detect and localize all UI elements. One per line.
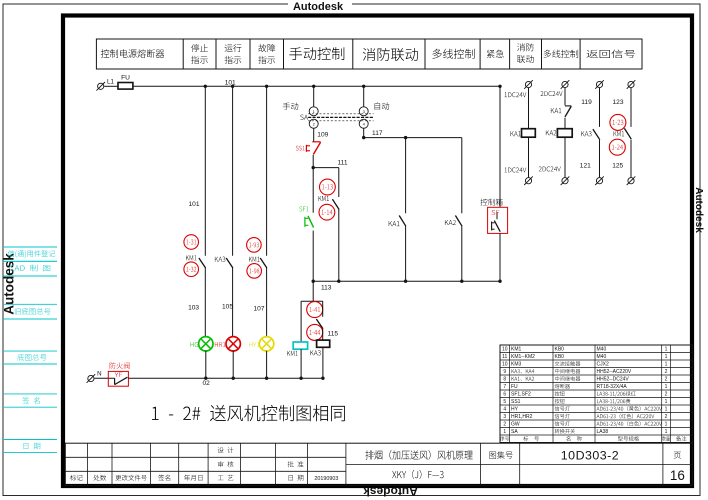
wire 1DC24V to coil KA1	[528, 88, 530, 129]
label manual	[283, 102, 298, 109]
label auto	[375, 102, 389, 109]
wire control-box branch lower to wire 113	[499, 233, 501, 281]
svg-text:3: 3	[503, 414, 506, 420]
junction on wire 101 at stop-indicator branch	[204, 85, 207, 88]
title: page label	[674, 452, 681, 459]
svg-text:5: 5	[503, 399, 506, 405]
contact KA1 (NC) in KA2 branch	[551, 106, 571, 117]
svg-text:1: 1	[665, 422, 668, 428]
wire 117	[362, 130, 462, 139]
title: atlas number label	[489, 451, 512, 458]
wire 02	[128, 378, 323, 387]
wire contact KA1 to coil KA2	[564, 118, 566, 129]
terminal N	[87, 371, 102, 383]
junction 02 at HY1 column	[265, 377, 268, 380]
svg-text:LA38: LA38	[597, 429, 609, 435]
wire KA2 branch upper	[461, 138, 463, 214]
wire 101 drop to SA manual contact	[313, 86, 315, 107]
terminal 121	[580, 162, 604, 185]
junction 117/KA1 branch	[404, 136, 407, 139]
wire contact to lamp HG	[188, 268, 205, 337]
label control box	[480, 199, 502, 206]
sidebar label signature	[23, 397, 40, 404]
svg-text:20190903: 20190903	[314, 476, 338, 482]
terminal 1DC24V top	[505, 80, 533, 97]
pin label 1-23	[610, 114, 626, 130]
coil KA2	[546, 129, 572, 138]
svg-text:1: 1	[665, 347, 668, 353]
pushbutton SF1 (NO, green)	[299, 168, 313, 282]
pin label 1-98	[247, 264, 262, 279]
wire 101 drop to SA auto contact	[363, 86, 365, 107]
BOM row 9 KA3、KA4	[503, 369, 667, 375]
terminal 123	[612, 80, 635, 106]
wire 119 to contact KA3	[599, 88, 601, 127]
coil KA3	[310, 340, 329, 355]
caption: 1-2# fan control identical	[152, 405, 345, 421]
svg-text:L1: L1	[107, 78, 114, 85]
pushbutton SF in control box	[488, 207, 508, 233]
svg-text:9: 9	[503, 369, 506, 375]
coil KA1	[510, 129, 535, 138]
svg-text:1: 1	[665, 362, 668, 368]
junction 101/control-box branch	[498, 85, 501, 88]
svg-text:11: 11	[502, 354, 507, 360]
svg-text:Autodesk: Autodesk	[2, 253, 17, 315]
wire KM1 aux branch down	[338, 168, 340, 197]
svg-text:4: 4	[503, 407, 506, 413]
svg-text:111: 111	[337, 160, 347, 167]
lamp HG green	[190, 337, 213, 351]
sidebar label old base number	[15, 308, 51, 315]
contact KA2	[455, 216, 462, 227]
header label: fire linkage	[363, 48, 418, 61]
svg-text:16: 16	[670, 468, 685, 483]
header label: return signal	[587, 50, 636, 58]
wire KM1 aux branch to wire 113	[338, 210, 340, 282]
svg-text:1: 1	[665, 354, 668, 360]
svg-text:105: 105	[222, 304, 233, 311]
BOM row 1 SA	[503, 429, 667, 435]
lamp HR1 red	[215, 337, 241, 351]
svg-text:SA: SA	[511, 429, 518, 435]
wire contact to lamp HY1	[253, 268, 266, 337]
contact KA1	[399, 216, 406, 227]
header table	[96, 39, 642, 69]
terminal 2DC24V top	[541, 80, 570, 96]
sidebar label CAD drawing	[10, 265, 51, 272]
selector switch SA	[308, 107, 374, 128]
terminal 125	[612, 162, 635, 185]
sidebar label base number	[17, 354, 46, 361]
svg-text:FU: FU	[121, 74, 130, 81]
svg-text:101: 101	[225, 80, 236, 87]
wire 101 drop to KM1 NC contact (stop column)	[188, 86, 205, 256]
svg-text:02: 02	[203, 380, 211, 387]
terminal L1	[96, 78, 114, 90]
fire damper YF	[108, 362, 129, 386]
svg-text:101: 101	[188, 201, 199, 208]
svg-text:M40: M40	[597, 354, 607, 360]
wire top bar to coil KM1	[300, 301, 302, 342]
BOM row 8 KA1、KA2	[503, 376, 667, 382]
svg-text:107: 107	[253, 305, 264, 312]
coil KM1 (cyan)	[287, 342, 307, 356]
wire 101 drop to KA3 contact (run column)	[232, 86, 234, 256]
junction 02 at HG column	[204, 377, 207, 380]
BOM row 5 SS1	[503, 399, 667, 405]
svg-text:113: 113	[321, 285, 332, 292]
svg-text:KB0: KB0	[555, 347, 565, 353]
pushbutton SS1 (NC, red)	[296, 142, 321, 155]
header label: control power fuse	[101, 49, 164, 58]
wire L1 to fuse	[104, 85, 118, 87]
svg-text:HR1,HR2: HR1,HR2	[511, 414, 533, 420]
wire 113	[312, 280, 502, 292]
contact KM1 (stop indicator column)	[199, 258, 206, 268]
svg-text:6: 6	[503, 392, 506, 398]
title block	[65, 443, 692, 485]
header label: multi-wire control small	[544, 50, 579, 58]
svg-text:2: 2	[665, 392, 668, 398]
svg-text:1: 1	[665, 429, 668, 435]
junction 02 at HR1 column	[232, 377, 235, 380]
pin label 1-24	[609, 139, 625, 155]
svg-text:7: 7	[503, 384, 506, 390]
svg-text:1: 1	[503, 429, 506, 435]
wire KA1 branch lower to wire 113	[405, 226, 407, 281]
wire KA1 branch upper	[405, 138, 407, 214]
junction on wire 101 at SA manual branch	[312, 85, 315, 88]
sidebar label date	[24, 443, 41, 450]
svg-text:8: 8	[503, 377, 506, 383]
svg-text:KM1--KM2: KM1--KM2	[511, 354, 535, 360]
svg-text:KB0: KB0	[555, 354, 565, 360]
junction 02 at coil KM1	[299, 377, 302, 380]
svg-text:109: 109	[317, 132, 328, 139]
contact KA3 aux above coil KA3	[316, 301, 323, 329]
fuse FU	[118, 74, 133, 89]
pin label 1-32	[184, 262, 199, 277]
svg-text:Autodesk: Autodesk	[293, 1, 344, 13]
wire 123 to contact KM1	[630, 88, 632, 127]
wire contact KA3 to terminal 121	[599, 140, 601, 178]
node 111	[312, 160, 348, 170]
wire contact KM1 to terminal 125	[630, 140, 632, 178]
svg-text:1: 1	[665, 384, 668, 390]
svg-text:Autodesk: Autodesk	[693, 187, 704, 233]
contact KA3 (return signal)	[581, 129, 600, 140]
contact KA3 (run indicator column)	[226, 258, 233, 268]
wire SS1 to junction 111	[312, 155, 314, 168]
svg-text:FU: FU	[511, 384, 518, 390]
wire 113 drop to coil group	[312, 281, 314, 301]
BOM row 4 HY	[503, 406, 667, 412]
BOM row 10 KM1	[502, 347, 668, 353]
wire SA manual to SS1, labeled 109	[314, 128, 329, 142]
pin label 1-14	[319, 204, 335, 220]
header label: fire linkage small	[517, 43, 534, 51]
pin label 1-93	[247, 238, 262, 253]
title: smoke exhaust fan principle	[365, 450, 472, 460]
svg-text:HH52--AC220V: HH52--AC220V	[597, 369, 632, 375]
BOM row 3 HR1,HR2	[503, 414, 667, 420]
pin label 1-44	[307, 324, 323, 340]
BOM row 7 FU	[503, 384, 667, 390]
svg-text:121: 121	[580, 162, 591, 169]
contact KM1 (return signal)	[614, 128, 632, 139]
terminal 1DC24V bottom	[505, 168, 533, 185]
header label: multi-wire control	[432, 49, 474, 59]
left sidebar register	[3, 247, 57, 452]
header label: fault indicator	[258, 44, 275, 52]
BOM row 2 GW	[503, 421, 667, 427]
wire 101	[133, 80, 500, 87]
svg-text:103: 103	[188, 305, 199, 312]
junction 02 at coil KA3	[321, 377, 324, 380]
svg-text:125: 125	[612, 162, 623, 169]
terminal 119	[581, 80, 604, 106]
BOM header row	[500, 436, 686, 441]
svg-text:M40: M40	[597, 347, 607, 353]
terminal 2DC24V bottom	[539, 167, 570, 185]
wire coil KM1 to wire 02	[300, 349, 302, 378]
svg-text:2: 2	[503, 422, 506, 428]
wire coil KA2 to bottom terminal	[564, 137, 566, 177]
svg-text:1: 1	[665, 407, 668, 413]
wire lamp HY1 to wire 02	[266, 351, 268, 378]
wire lamp HR1 to wire 02	[232, 351, 234, 378]
BOM table	[500, 345, 692, 443]
wire coil KA1 to bottom terminal	[528, 137, 530, 177]
svg-text:10: 10	[502, 362, 508, 368]
wire contact to coil KA3	[322, 329, 324, 340]
svg-text:2: 2	[665, 377, 668, 383]
svg-text:GW: GW	[511, 422, 520, 428]
svg-text:2: 2	[665, 414, 668, 420]
pin label 1-31	[184, 235, 199, 250]
title: drawing code XKY(J)F-3	[392, 470, 443, 479]
wire contact to lamp HR1	[222, 268, 233, 337]
header label: emergency	[487, 50, 504, 58]
title block labels	[70, 447, 338, 482]
wire SA auto to node 117	[363, 128, 365, 138]
svg-text:RT18-32X/4A: RT18-32X/4A	[597, 384, 628, 390]
wire KA2 branch lower to wire 113	[461, 226, 463, 281]
svg-text:1: 1	[665, 399, 668, 405]
svg-text:SS1: SS1	[511, 399, 521, 405]
svg-text:119: 119	[581, 99, 592, 106]
svg-text:10D303-2: 10D303-2	[561, 449, 619, 463]
coil group top bar	[301, 300, 323, 302]
wire control-box branch upper	[499, 86, 501, 207]
svg-text:115: 115	[328, 330, 339, 337]
header label: stop indicator	[191, 44, 208, 52]
svg-text:CJX2: CJX2	[597, 362, 609, 368]
wire N to fire damper	[95, 377, 115, 379]
sidebar label borrow register	[8, 250, 56, 258]
lamp HY1 yellow	[249, 337, 274, 351]
svg-text:Autodesk: Autodesk	[363, 485, 418, 499]
wire 2DC24V to contact KA1	[564, 88, 566, 105]
svg-text:KM1: KM1	[511, 347, 522, 353]
junction on wire 101 at fault-indicator branch	[265, 85, 268, 88]
svg-text:HH52--DC24V: HH52--DC24V	[597, 377, 630, 383]
svg-text:2: 2	[665, 369, 668, 375]
BOM row 6 SF1,SF2	[503, 391, 667, 397]
junction on wire 101 at run-indicator branch	[231, 85, 234, 88]
svg-text:KM3: KM3	[511, 362, 522, 368]
wire coil KA3 to wire 02	[322, 347, 324, 378]
svg-text:123: 123	[612, 99, 623, 106]
BOM row 11 KM1--KM2	[502, 354, 668, 360]
svg-text:N: N	[97, 371, 101, 378]
pin label 1-41	[307, 302, 323, 318]
header label: run indicator	[225, 44, 242, 52]
contact KM1 self-holding	[332, 199, 339, 209]
svg-text:SF1,SF2: SF1,SF2	[511, 392, 531, 398]
svg-text:117: 117	[372, 130, 383, 137]
svg-text:HY: HY	[511, 407, 519, 413]
contact KM1 (fault indicator column)	[260, 258, 267, 268]
junction on wire 101 at SA auto branch	[362, 85, 365, 88]
svg-text:10: 10	[502, 347, 508, 353]
header label: manual control	[289, 47, 344, 60]
wire 101 drop to KM1 contact (fault column)	[266, 86, 268, 256]
pin label 1-13	[320, 179, 336, 195]
BOM row 10 KM3	[502, 361, 668, 367]
wire lamp HG to wire 02	[205, 351, 207, 378]
